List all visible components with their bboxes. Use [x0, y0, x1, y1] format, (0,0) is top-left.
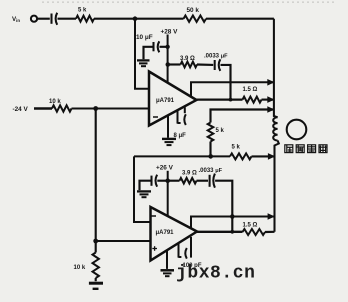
junction arrow at rail y216 — [268, 213, 275, 220]
node junction +26V with C5 R8 — [165, 178, 170, 183]
svg-text:jbx8.cn: jbx8.cn — [176, 264, 255, 284]
wire C2 right plate to +28V rail — [160, 46, 168, 48]
resistor R7 5k horizontal — [230, 153, 252, 159]
wire Vin terminal to C1 — [37, 18, 50, 20]
svg-text:1.5 Ω: 1.5 Ω — [243, 87, 258, 93]
svg-text:50 k: 50 k — [187, 7, 200, 14]
wire R4 to C3 — [197, 63, 213, 66]
resistor R6 5k vertical — [208, 123, 214, 142]
wire junction to R8 — [168, 180, 180, 182]
wire sense line y109 — [211, 110, 274, 123]
wire R8 to C6 — [197, 180, 209, 182]
wire C5 right plate to junction — [157, 180, 167, 182]
capacitor C3 .0033uF — [215, 59, 221, 71]
wire R1 to node A — [94, 18, 184, 20]
capacitor C2 10uF bypass — [154, 41, 160, 52]
+28V supply label — [161, 29, 179, 36]
resistor R1 5k — [76, 16, 94, 22]
wire bootstrap line y82 — [191, 82, 274, 97]
motor winding coil — [273, 117, 277, 140]
capacitor C1 input coupling — [52, 13, 58, 25]
svg-text:5 k: 5 k — [216, 128, 225, 134]
ground below R9 — [89, 283, 103, 289]
svg-text:-24 V: -24 V — [13, 106, 29, 113]
node B junction on -24V line — [93, 106, 98, 111]
wire +28V rail down to U1 top — [167, 35, 169, 83]
wire U2 output — [197, 231, 243, 233]
svg-text:.0033 μF: .0033 μF — [204, 54, 228, 60]
svg-text:+26 V: +26 V — [156, 165, 174, 172]
svg-text:10 k: 10 k — [49, 99, 61, 105]
node junction C6 branch on y216 — [230, 214, 235, 219]
wire R5 to rail — [262, 99, 274, 101]
wire C5 left plate to ground — [140, 181, 152, 190]
wire harness line y156 — [134, 155, 230, 157]
wire C2 left plate to ground — [144, 47, 154, 60]
node junction R6 line y156 — [208, 154, 213, 159]
ground below U2 — [166, 250, 168, 269]
capacitor C6 .0033uF — [210, 174, 215, 188]
resistor R4 3.9 ohm — [181, 62, 198, 68]
svg-text:μA791: μA791 — [156, 98, 175, 104]
node output junction with C6 branch — [230, 230, 234, 234]
svg-text:1.5 Ω: 1.5 Ω — [243, 223, 258, 229]
resistor R2 50k feedback — [184, 16, 207, 22]
wire node C down to R9 — [95, 241, 97, 253]
svg-text:3.9 Ω: 3.9 Ω — [182, 170, 197, 176]
wire C6 to output node — [215, 181, 232, 232]
svg-text:8 μF: 8 μF — [174, 133, 187, 139]
svg-text:μA791: μA791 — [156, 230, 175, 236]
node output junction with C3 branch — [229, 98, 233, 102]
ground below C2 — [137, 60, 150, 66]
faint cropped text row at very top — [42, 1, 334, 3]
capacitor C5 bypass op2 — [152, 175, 158, 187]
wire node B down to node C — [95, 109, 97, 242]
wire junction down to U2 top — [167, 181, 169, 217]
resistor R3 10k — [52, 105, 72, 111]
junction arrow at rail y109 — [267, 106, 274, 113]
junction arrow at rail y99 — [267, 96, 274, 103]
wire C1 to R1 — [58, 18, 77, 20]
capacitor C4 8uF at U1 bottom pins — [178, 107, 186, 125]
op-amp U2 uA791 — [151, 207, 198, 261]
wire R10 to rail corner — [265, 231, 275, 233]
junction arrow at rail y82 — [267, 79, 274, 86]
motor label (servo motor glyphs) — [285, 145, 327, 153]
svg-text:3.9 Ω: 3.9 Ω — [180, 56, 195, 62]
svg-text:10 μF: 10 μF — [136, 34, 153, 41]
svg-text:Vin: Vin — [12, 16, 20, 23]
resistor R10 1.5 ohm — [243, 229, 266, 235]
svg-text:10 k: 10 k — [74, 265, 86, 271]
wire node A down to U1 +input — [135, 19, 149, 89]
svg-text:.0033 μF: .0033 μF — [199, 168, 223, 174]
wire U1 output — [197, 98, 243, 100]
input terminal circle — [31, 16, 37, 22]
resistor R5 1.5 ohm — [243, 97, 262, 103]
node -24V input label — [13, 106, 29, 113]
wire junction to R4 — [168, 63, 181, 65]
node supply junction with R4 — [166, 62, 171, 67]
wire sense line y216 — [191, 217, 274, 229]
wire C3 to output node — [221, 65, 231, 100]
wire node C to U2 lower input — [96, 240, 150, 242]
junction arrow at rail y156 — [268, 153, 275, 160]
U2 minus marker — [152, 215, 157, 217]
node A junction — [133, 16, 138, 21]
watermark jbx8.cn — [176, 264, 255, 284]
resistor R8 3.9 ohm — [180, 178, 197, 184]
node supply junction with C2 — [165, 45, 169, 49]
svg-text:+28 V: +28 V — [161, 29, 179, 36]
rail below coil — [275, 141, 279, 232]
+26V supply label op2 — [156, 165, 174, 172]
wire R3 to U1 lower input — [72, 108, 149, 110]
U1 minus marker — [153, 116, 158, 118]
motor M circle — [287, 120, 307, 140]
svg-text:5 k: 5 k — [232, 145, 241, 151]
ground below C5 — [137, 191, 151, 197]
capacitor C7 100pF at U2 bottom pins — [179, 237, 192, 259]
node Vin input label — [12, 16, 20, 23]
wire +26V down to junction — [167, 171, 169, 181]
wire R7 to rail — [252, 155, 275, 157]
right rail from top corner down to coil — [274, 19, 278, 118]
resistor R9 10k vertical — [93, 253, 99, 279]
wire R9 to ground — [95, 278, 97, 281]
wire -24V to R3 — [34, 107, 52, 110]
ground below U1 — [167, 115, 169, 138]
node C junction — [93, 239, 98, 244]
op-amp U1 uA791 — [149, 72, 197, 126]
wire y156 corner down to U2 upper input — [134, 156, 150, 222]
wire R6 to line y156 — [209, 142, 211, 157]
U2 plus marker — [152, 246, 157, 251]
svg-text:5 k: 5 k — [78, 8, 87, 14]
wire R2 to right rail — [206, 18, 274, 20]
